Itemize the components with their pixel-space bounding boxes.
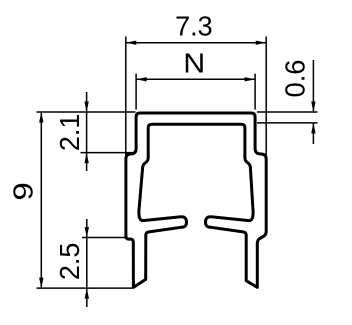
top ext line (9 / 2.1) [37,111,136,113]
arrows 0.6 (outside, pointing in) [311,102,315,113]
dim 2.5 line [86,219,88,307]
svg-text:0.6: 0.6 [280,60,311,98]
dim N ext lines [135,74,137,110]
arrows N [136,77,147,81]
dim 2.1 line [86,92,88,171]
dim 7.3 ext lines [125,37,127,156]
dim 0.6 ext lines [257,111,318,113]
dim N line [136,78,255,80]
arrows 2.1 (outside) [84,102,88,113]
svg-text:2.5: 2.5 [54,243,85,281]
dim 9 line [40,112,42,288]
svg-text:7.3: 7.3 [175,10,213,41]
arrows 7.3 (inside, pointing out) [126,41,137,45]
svg-text:N: N [183,48,205,79]
dim 2.5 top ext [82,237,128,239]
dim 7.3 line [126,42,266,44]
extrusion profile cross-section outline [126,113,266,287]
dim 0.6 line [312,60,314,112]
svg-text:9: 9 [8,182,39,200]
arrows 9 (inside) [39,112,43,123]
svg-text:2.1: 2.1 [54,114,85,152]
arrows 2.5 (outside) [85,227,89,238]
bottom ext line (9 / 2.5) [37,287,133,289]
dim 2.1 bottom ext [81,152,135,154]
